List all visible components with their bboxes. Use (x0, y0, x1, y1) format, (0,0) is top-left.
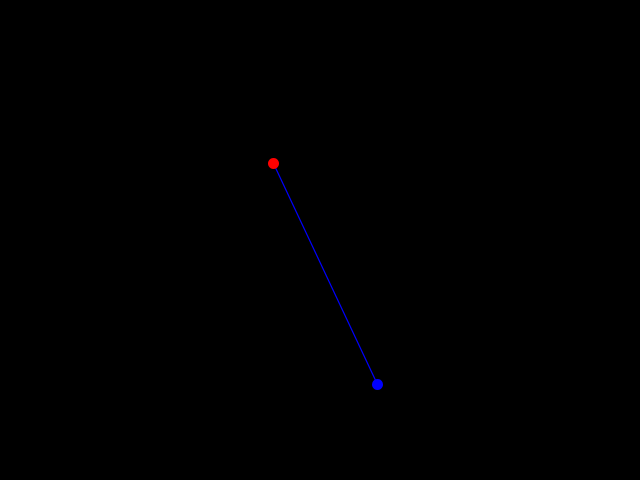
node B (blue) (372, 379, 383, 390)
node A (red) (268, 158, 279, 169)
wire (274, 164, 378, 385)
